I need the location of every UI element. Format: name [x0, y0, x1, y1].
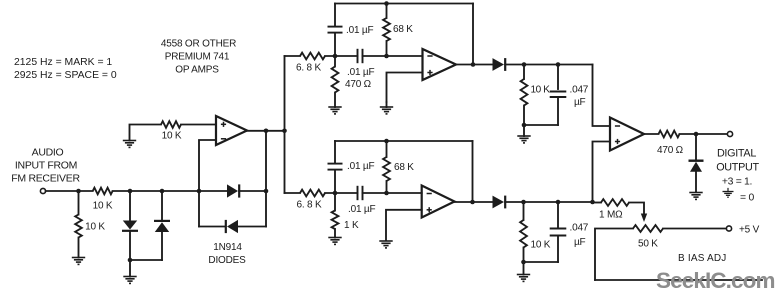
svg-text:10 K: 10 K	[85, 222, 105, 233]
resistor R2 10K shunt to ground	[75, 191, 82, 238]
wire top filter input	[285, 55, 301, 57]
value C3 .047 uF	[570, 85, 589, 109]
junction bottom cap node	[333, 191, 338, 196]
svg-text:10 K: 10 K	[531, 85, 551, 96]
junction output node	[694, 132, 699, 137]
label 4558 OR OTHER PREMIUM 741 OP AMPS	[161, 39, 236, 76]
wire D3 to output vertical	[239, 190, 266, 192]
wire CR6 to RC	[505, 201, 592, 203]
resistor R12 470 ohm output	[659, 131, 680, 138]
svg-text:.01 µF: .01 µF	[347, 67, 374, 78]
label BIAS ADJ	[678, 253, 727, 264]
capacitor C1 .01uF top feedback	[328, 4, 343, 57]
value R9 68 K	[394, 162, 414, 173]
junction 68K bottom end	[384, 191, 389, 196]
wire feedback right vertical	[265, 131, 267, 227]
ground logic-0 glyph	[723, 189, 734, 198]
svg-text:470 Ω: 470 Ω	[345, 79, 372, 90]
svg-text:.01 µF: .01 µF	[348, 204, 375, 215]
resistor R11 10K bot det	[520, 202, 527, 262]
diode CR5 top detector	[493, 58, 506, 71]
svg-text:10 K: 10 K	[93, 201, 113, 212]
svg-text:10 K: 10 K	[531, 240, 551, 251]
junction input shunt node	[76, 189, 81, 194]
value R11 10 K	[531, 240, 551, 251]
resistor R8 6.8K bottom	[300, 190, 325, 197]
wire input line to clamp diodes	[113, 190, 199, 192]
value C4 .01 uF	[347, 161, 374, 172]
svg-text:µF: µF	[574, 97, 586, 108]
resistor R3 10K limiter input	[161, 121, 181, 128]
diode CR1 1N914 clamp down	[122, 191, 138, 260]
svg-text:2925 Hz = SPACE = 0: 2925 Hz = SPACE = 0	[14, 70, 117, 81]
value R14 50 K	[638, 239, 658, 250]
junction 68K bottom	[384, 54, 389, 59]
op-amp U3 bottom filter	[422, 186, 455, 218]
wire lower feedback rail right	[238, 226, 266, 228]
resistor R14 50K pot element	[633, 225, 663, 232]
node AUDIO input terminal	[40, 188, 45, 193]
wire U1 inverting input elbow	[199, 140, 216, 227]
junction bias node	[590, 200, 595, 205]
wire pot left arm	[595, 229, 633, 281]
wire to output terminal	[680, 133, 728, 135]
ground input shunt	[72, 238, 85, 265]
junction U3 output feedback	[470, 200, 475, 205]
value 6.8K top	[296, 63, 321, 74]
svg-text:68 K: 68 K	[393, 24, 413, 35]
resistor R6 470 ohm top	[332, 56, 339, 93]
wire 6.8K to cap node	[325, 55, 358, 57]
junction top det ground node	[522, 123, 527, 128]
junction top cap node	[333, 54, 338, 59]
wire pot to +5V	[663, 228, 726, 230]
svg-text:6. 8 K: 6. 8 K	[296, 63, 321, 74]
wire U2 output	[456, 64, 493, 66]
value R12 470 ohm	[657, 145, 684, 156]
ground limiter noninverting ref	[123, 141, 136, 148]
capacitor C4 .01uF bottom feedback	[328, 141, 343, 193]
svg-text:FM RECEIVER: FM RECEIVER	[11, 173, 80, 185]
op-amp U2 top filter	[423, 49, 457, 80]
ground output clamp	[689, 193, 702, 200]
ground top detector	[517, 125, 530, 143]
junction bot det ground node	[521, 260, 526, 265]
junction bottom rail 68K	[384, 139, 389, 144]
svg-text:+3 = 1.: +3 = 1.	[722, 177, 752, 188]
svg-text:B IAS ADJ: B IAS ADJ	[678, 253, 727, 264]
op-amp U1 limiter	[216, 116, 247, 145]
ground clamp diodes	[123, 260, 136, 283]
value C2 .01 uF	[347, 67, 374, 78]
wire 1M to wiper arrow	[629, 203, 644, 215]
junction rail 68K	[384, 1, 389, 6]
wire bottom filter input	[285, 192, 301, 194]
value R6 470 ohm	[345, 79, 372, 90]
svg-text:OP AMPS: OP AMPS	[175, 65, 219, 76]
svg-text:+5 V: +5 V	[739, 225, 760, 236]
junction U2 output feedback	[471, 62, 476, 67]
svg-text:SeekIC.com: SeekIC.com	[656, 268, 775, 293]
ground bottom detector	[517, 262, 530, 281]
wire U3 noninverting to ground	[386, 210, 422, 241]
capacitor C2 .01uF series top	[358, 49, 363, 63]
resistor R13 1 Megohm	[601, 199, 629, 206]
svg-text:.047: .047	[570, 223, 589, 234]
svg-text:1 MΩ: 1 MΩ	[599, 210, 623, 221]
svg-text:INPUT FROM: INPUT FROM	[15, 160, 77, 172]
wire bottom rail	[595, 279, 762, 281]
wire cap to U3 inverting	[363, 192, 422, 194]
label 2125 Hz MARK	[14, 57, 117, 81]
wire input line	[46, 190, 93, 192]
diode CR3 1N914 feedback right	[227, 184, 239, 197]
resistor R7 10K top det	[521, 65, 528, 126]
wire U3 output	[455, 201, 494, 203]
wire input node to D3	[199, 190, 227, 192]
ground U3 plus	[379, 241, 392, 248]
svg-text:4558 OR OTHER: 4558 OR OTHER	[161, 39, 236, 50]
diode CR6 bottom detector	[493, 196, 506, 209]
svg-text:.01 µF: .01 µF	[346, 25, 373, 36]
diode CR4 1N914 feedback left	[226, 220, 238, 233]
junction bot det cap	[556, 200, 561, 205]
svg-text:68 K: 68 K	[394, 162, 414, 173]
capacitor C6 .047uF bot det	[550, 202, 567, 262]
wire clamp diode bottoms	[130, 259, 162, 261]
svg-text:.01 µF: .01 µF	[347, 161, 374, 172]
wire bot det ground row	[524, 261, 559, 263]
wire U4 noninverting elbow	[593, 142, 611, 203]
svg-text:1N914: 1N914	[213, 242, 242, 253]
wire 6.8K to cap node bottom	[325, 192, 358, 194]
wire ground to 10K	[130, 125, 162, 141]
wire bias to 1M	[593, 202, 602, 204]
value C6 .047 uF	[570, 223, 589, 249]
junction clamp ground node	[128, 258, 133, 263]
svg-text:10 K: 10 K	[162, 131, 182, 142]
value R13 1 Mohm	[599, 210, 623, 221]
value R10 1 K	[344, 220, 359, 231]
node +5V terminal	[726, 226, 731, 231]
ground U2 plus	[380, 102, 393, 114]
svg-text:DIGITAL: DIGITAL	[717, 148, 756, 160]
svg-text:.047: .047	[570, 85, 589, 96]
capacitor C3 .047uF top det	[550, 65, 567, 126]
value 10 K shunt	[85, 222, 105, 233]
watermark SeekIC.com	[656, 268, 775, 293]
svg-text:OUTPUT: OUTPUT	[716, 162, 759, 174]
resistor R4 6.8K top	[300, 53, 325, 60]
wire bottom feedback vertical	[472, 141, 474, 202]
node wiper arrow	[641, 214, 647, 223]
label 1N914 DIODES	[208, 242, 246, 266]
wire cap to U2 inverting	[363, 55, 423, 57]
svg-text:6. 8 K: 6. 8 K	[297, 200, 322, 211]
svg-text:1 K: 1 K	[344, 220, 359, 231]
resistor R5 68K top feedback	[383, 4, 390, 57]
ground R6	[328, 93, 341, 114]
svg-text:470 Ω: 470 Ω	[657, 145, 684, 156]
svg-text:AUDIO: AUDIO	[32, 147, 64, 159]
wire CR5 to RC	[505, 64, 592, 66]
svg-text:µF: µF	[574, 237, 586, 248]
wire U2 noninverting to ground	[387, 73, 423, 103]
wire top det ground row	[524, 124, 558, 126]
svg-text:PREMIUM 741: PREMIUM 741	[165, 52, 230, 63]
value R5 68 K	[393, 24, 413, 35]
wire bottom feedback rail	[335, 140, 473, 142]
label DIGITAL OUTPUT	[716, 148, 759, 188]
capacitor C5 .01uF series bottom	[358, 186, 363, 200]
wire top det to U4 minus	[593, 65, 611, 127]
wire lower feedback rail left	[199, 226, 225, 228]
label AUDIO INPUT FROM FM RECEIVER	[11, 147, 80, 185]
node DIGITAL OUTPUT terminal	[727, 131, 732, 136]
junction diode A top	[128, 189, 133, 194]
resistor R1 10K series input	[93, 188, 113, 195]
junction input to feedback	[197, 189, 202, 194]
wire splitter vertical	[284, 56, 286, 193]
wire U1 output	[247, 130, 285, 132]
value 10 K series	[93, 201, 113, 212]
ground R10	[328, 229, 341, 244]
junction diode B top	[160, 189, 165, 194]
op-amp U4 comparator	[610, 118, 644, 151]
wire U4 output	[644, 133, 659, 135]
value 6.8K bottom	[297, 200, 322, 211]
junction U1 output feedback	[264, 129, 269, 134]
junction top det 10K	[522, 62, 527, 67]
resistor R10 1K bottom	[332, 193, 339, 229]
label equals 0	[740, 193, 755, 204]
value R7 10 K	[531, 85, 551, 96]
svg-text:50 K: 50 K	[638, 239, 658, 250]
svg-text:2125 Hz = MARK = 1: 2125 Hz = MARK = 1	[14, 57, 112, 68]
wire top feedback rail	[335, 3, 473, 5]
junction splitter node	[282, 129, 287, 134]
svg-text:DIODES: DIODES	[208, 255, 246, 266]
value C1 .01 uF	[346, 25, 373, 36]
junction top det cap	[556, 62, 561, 67]
wire top feedback vertical	[472, 4, 474, 65]
diode CR2 1N914 clamp up	[154, 191, 170, 260]
junction feedback right mid	[264, 189, 269, 194]
svg-text:= 0: = 0	[740, 193, 755, 204]
junction bot det 10K	[521, 200, 526, 205]
diode CR7 output clamp	[689, 134, 704, 192]
label +5 V	[739, 225, 760, 236]
wire 10K to U1 plus	[181, 124, 216, 126]
value 10 K limiter	[162, 131, 182, 142]
resistor R9 68K bottom feedback	[383, 141, 390, 193]
value C5 .01 uF	[348, 204, 375, 215]
